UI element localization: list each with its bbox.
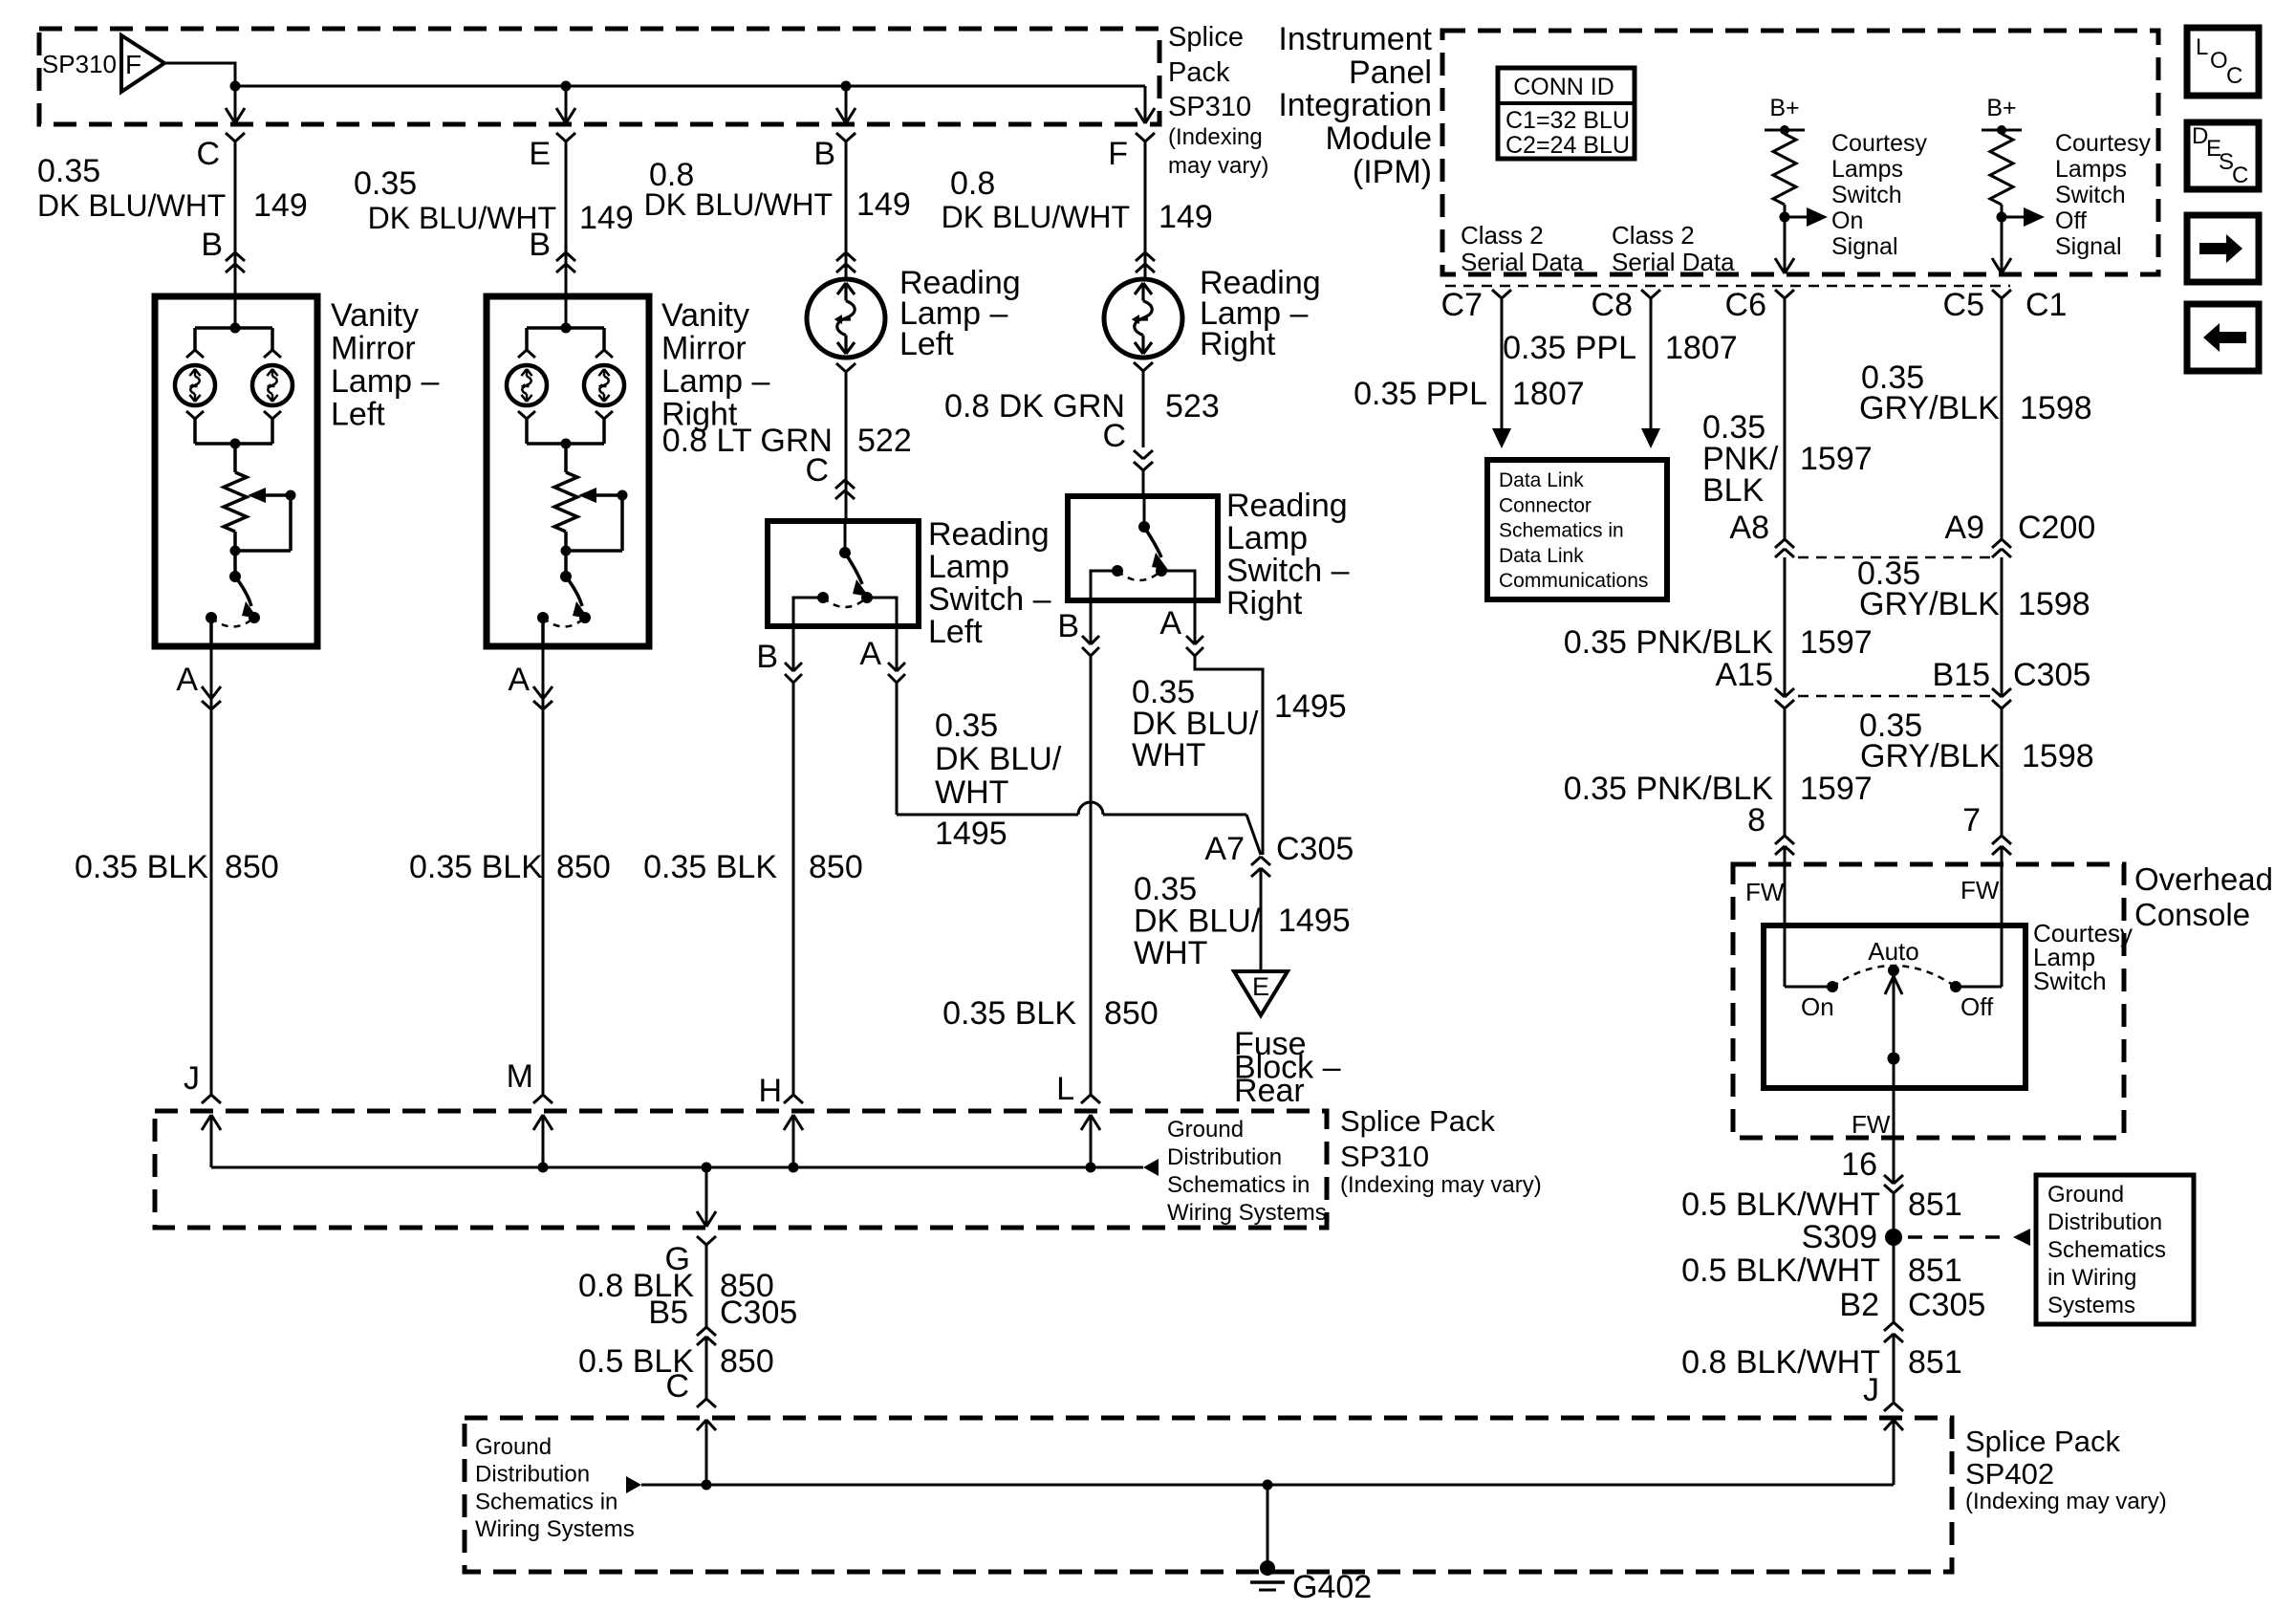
connector label C305 (B15) bbox=[2013, 657, 2090, 693]
circuit number 851 (1) bbox=[1908, 1186, 1962, 1223]
svg-text:CONN ID: CONN ID bbox=[1513, 74, 1614, 100]
switch left pivot bbox=[839, 521, 851, 558]
circuit number 149 (B) bbox=[856, 186, 911, 223]
wire label DK BLU/WHT (E) bbox=[368, 201, 556, 235]
svg-text:Switch –: Switch – bbox=[1226, 553, 1350, 589]
wire C7 to data link bbox=[1492, 298, 1511, 448]
circuit number 149 (F) bbox=[1159, 199, 1213, 235]
wire A7 to fuse block bbox=[1260, 868, 1263, 969]
svg-text:Signal: Signal bbox=[2055, 233, 2122, 260]
FW label (right) bbox=[1960, 876, 2000, 904]
circuit number 1495 (right) bbox=[1274, 688, 1347, 725]
svg-text:GRY/BLK: GRY/BLK bbox=[1859, 390, 2000, 426]
svg-text:SP310: SP310 bbox=[42, 50, 117, 78]
connector chevron mid (lamp right) bbox=[1136, 252, 1155, 272]
pin label A (vanity right) bbox=[508, 662, 530, 698]
svg-text:C305: C305 bbox=[1908, 1287, 1985, 1323]
svg-text:Communications: Communications bbox=[1499, 570, 1648, 592]
wire label 0.35 BLK (H) bbox=[643, 849, 777, 885]
svg-text:B2: B2 bbox=[1839, 1287, 1879, 1323]
svg-text:B: B bbox=[756, 639, 778, 675]
wire label 0.8 DK GRN bbox=[944, 388, 1125, 425]
connector chevron 16 bbox=[1884, 1175, 1903, 1193]
wire from SP310 triangle bbox=[164, 63, 235, 86]
svg-text:1807: 1807 bbox=[1512, 376, 1585, 412]
svg-text:Splice: Splice bbox=[1168, 22, 1244, 53]
wire courtesy off to border bbox=[1992, 217, 2011, 273]
svg-text:C8: C8 bbox=[1592, 287, 1633, 323]
connector chevron B (lamp left) bbox=[836, 133, 856, 142]
svg-text:0.8 BLK/WHT: 0.8 BLK/WHT bbox=[1681, 1344, 1880, 1381]
connector label C200 bbox=[2018, 510, 2095, 546]
switch right pivot bbox=[1138, 496, 1150, 533]
vanity mirror lamp right box bbox=[487, 296, 649, 646]
arrow into splice L bbox=[1081, 1115, 1100, 1130]
svg-text:Switch –: Switch – bbox=[928, 581, 1051, 618]
svg-text:Vanity: Vanity bbox=[331, 297, 419, 334]
connector chevron C bbox=[226, 133, 245, 142]
svg-text:C5: C5 bbox=[1943, 287, 1984, 323]
svg-text:Schematics: Schematics bbox=[2047, 1237, 2166, 1263]
pin label B (vanity left) bbox=[201, 227, 223, 263]
svg-text:C1: C1 bbox=[2025, 287, 2067, 323]
overhead console title bbox=[2134, 861, 2273, 932]
svg-text:Panel: Panel bbox=[1349, 54, 1432, 91]
svg-text:Mirror: Mirror bbox=[661, 331, 747, 367]
connector chevron B15 bbox=[1992, 688, 2011, 708]
svg-text:B: B bbox=[1057, 608, 1079, 644]
svg-text:Distribution: Distribution bbox=[2047, 1209, 2162, 1235]
instrument panel integration module box (dashed) bbox=[1442, 31, 2158, 274]
svg-text:Reading: Reading bbox=[1226, 488, 1348, 524]
pin label A (switch left) bbox=[859, 636, 881, 672]
connector chevron mid (lamp left) bbox=[836, 252, 856, 272]
wire label 0.35 BLK (vanity right) bbox=[409, 849, 543, 885]
svg-text:Serial Data: Serial Data bbox=[1461, 248, 1584, 276]
pin label C6 bbox=[1725, 287, 1766, 323]
connector chevron A9 bbox=[1992, 539, 2011, 557]
svg-text:Schematics in: Schematics in bbox=[1499, 520, 1624, 542]
svg-text:Console: Console bbox=[2134, 897, 2250, 932]
pin label A8 bbox=[1729, 510, 1769, 546]
wire label 0.35 DK BLU/WHT (fuse) bbox=[1134, 871, 1261, 971]
circuit number 1597 (C6) bbox=[1800, 441, 1873, 477]
svg-text:DK BLU/: DK BLU/ bbox=[935, 741, 1062, 777]
ground label G402 bbox=[1292, 1569, 1372, 1605]
svg-text:FW: FW bbox=[1960, 876, 2000, 904]
connector chevron B5 bbox=[697, 1327, 716, 1345]
svg-text:C7: C7 bbox=[1441, 287, 1483, 323]
wire label 0.35 DK BLU/WHT (1495 right) bbox=[1132, 674, 1259, 773]
courtesy lamp switch title bbox=[2033, 919, 2133, 995]
svg-text:Right: Right bbox=[1200, 326, 1276, 362]
circuit number 1807 (C8) bbox=[1665, 330, 1738, 366]
forward arrow box bbox=[2187, 215, 2259, 282]
signal arrow (off) bbox=[2002, 207, 2045, 227]
svg-text:A: A bbox=[508, 662, 530, 698]
wire switch to 16 bbox=[1893, 1088, 1895, 1184]
svg-text:C: C bbox=[196, 136, 220, 172]
circuit number 1807 (C7) bbox=[1512, 376, 1585, 412]
connector label C305 (B2) bbox=[1908, 1287, 1985, 1323]
svg-text:523: 523 bbox=[1165, 388, 1220, 425]
switch off wire bbox=[1950, 981, 2002, 992]
svg-text:7: 7 bbox=[1962, 802, 1981, 838]
svg-text:1495: 1495 bbox=[1274, 688, 1347, 725]
svg-text:C305: C305 bbox=[720, 1295, 797, 1331]
FW label (bottom) bbox=[1852, 1110, 1891, 1139]
pin label F bbox=[1108, 136, 1128, 172]
connector chevron J bbox=[202, 1095, 221, 1103]
svg-text:A: A bbox=[1159, 605, 1181, 642]
connector chevron E bbox=[556, 133, 575, 142]
svg-text:0.35 PNK/BLK: 0.35 PNK/BLK bbox=[1564, 771, 1774, 807]
svg-text:B: B bbox=[529, 227, 551, 263]
splice pack SP310 ground title bbox=[1340, 1104, 1542, 1198]
junction dot B bbox=[841, 81, 852, 92]
wire C5 to A9 bbox=[2001, 298, 2004, 539]
connector chevron B (vanity left) bbox=[226, 252, 245, 272]
svg-text:149: 149 bbox=[856, 186, 911, 223]
wire label 0.35 (C) bbox=[37, 153, 100, 189]
svg-text:B+: B+ bbox=[1769, 95, 1799, 121]
svg-text:0.35 PNK/BLK: 0.35 PNK/BLK bbox=[1564, 624, 1774, 661]
wire label 0.35 PPL (C7) bbox=[1354, 376, 1487, 412]
svg-text:Courtesy: Courtesy bbox=[2055, 130, 2152, 157]
wire label 0.35 BLK (vanity left) bbox=[75, 849, 208, 885]
arrow into SP402 (C) bbox=[697, 1420, 716, 1430]
wire H into bus bbox=[792, 1115, 795, 1167]
wire B2 to J bbox=[1893, 1334, 1895, 1403]
circuit number 523 bbox=[1165, 388, 1220, 425]
pin label A (vanity left) bbox=[176, 662, 198, 698]
wire F to reading lamp right bbox=[1144, 142, 1147, 279]
splice SP310 label bbox=[42, 50, 117, 78]
circuit number 850 (vanity left) bbox=[225, 849, 279, 885]
connector chevron C8 bbox=[1641, 290, 1660, 298]
svg-text:851: 851 bbox=[1908, 1186, 1962, 1223]
splice SP310 triangle F bbox=[121, 35, 164, 92]
B+ rail (off) bbox=[1982, 125, 2022, 135]
svg-text:0.35 PPL: 0.35 PPL bbox=[1354, 376, 1487, 412]
svg-text:F: F bbox=[125, 50, 141, 79]
wire 1495 from switch left bbox=[897, 683, 1261, 855]
svg-text:Left: Left bbox=[928, 614, 983, 650]
circuit number 1597 (2) bbox=[1800, 624, 1873, 661]
auto label bbox=[1868, 937, 1919, 966]
switch right contacts bbox=[1112, 565, 1167, 577]
svg-text:C200: C200 bbox=[2018, 510, 2095, 546]
svg-text:Reading: Reading bbox=[928, 516, 1050, 553]
svg-text:A7: A7 bbox=[1204, 831, 1245, 867]
wire J into SP402 bbox=[1893, 1420, 1895, 1485]
circuit number 851 (3) bbox=[1908, 1344, 1962, 1381]
circuit number 850 (L) bbox=[1104, 995, 1159, 1032]
svg-text:On: On bbox=[1801, 992, 1834, 1021]
junction dot (off) bbox=[1997, 212, 2007, 223]
wire label 0.35 DK BLU/WHT (1495 left) bbox=[935, 708, 1062, 811]
wire label DK BLU/WHT (F) bbox=[942, 200, 1130, 234]
wire A15 to 8 bbox=[1784, 708, 1787, 836]
connector line A15/B15 (thin dashed) bbox=[1798, 695, 1990, 698]
svg-text:E: E bbox=[529, 136, 551, 172]
wire C6 to A8 bbox=[1784, 298, 1787, 539]
switch right pin B wire bbox=[1091, 571, 1117, 600]
svg-text:1597: 1597 bbox=[1800, 624, 1873, 661]
svg-text:Systems: Systems bbox=[2047, 1293, 2135, 1318]
signal arrow (on) bbox=[1785, 207, 1828, 227]
wire label 0.35 GRY/BLK (3) bbox=[1859, 708, 2001, 774]
svg-text:A: A bbox=[176, 662, 198, 698]
connector chevron B2 bbox=[1884, 1322, 1903, 1342]
svg-text:Courtesy: Courtesy bbox=[1831, 130, 1928, 157]
reading lamp left title bbox=[899, 265, 1021, 362]
svg-text:851: 851 bbox=[1908, 1252, 1962, 1289]
back arrow box bbox=[2187, 304, 2259, 371]
splice dot S309 bbox=[1885, 1229, 1902, 1246]
svg-text:850: 850 bbox=[809, 849, 863, 885]
svg-text:1597: 1597 bbox=[1800, 771, 1873, 807]
svg-text:C305: C305 bbox=[1276, 831, 1354, 867]
arrow into splice H bbox=[784, 1115, 803, 1130]
svg-text:Pack: Pack bbox=[1168, 57, 1230, 88]
pin label M bbox=[507, 1058, 533, 1095]
svg-text:L: L bbox=[1056, 1071, 1074, 1107]
wire B to reading lamp left bbox=[845, 142, 848, 279]
connector chevron C6 bbox=[1775, 290, 1794, 298]
vanity mirror lamp left box bbox=[155, 296, 317, 646]
svg-text:WHT: WHT bbox=[1132, 737, 1205, 773]
svg-text:Class 2: Class 2 bbox=[1461, 221, 1544, 250]
junction dot H bus bbox=[789, 1163, 799, 1173]
connector line A8/A9 (thin dashed) bbox=[1798, 556, 1990, 559]
pin label J (SP402) bbox=[1863, 1372, 1879, 1408]
svg-text:Lamp –: Lamp – bbox=[331, 363, 439, 400]
svg-text:SP310: SP310 bbox=[1168, 92, 1251, 122]
pin label B (switch left) bbox=[756, 639, 778, 675]
svg-text:0.35: 0.35 bbox=[37, 153, 100, 189]
junction dot C bbox=[230, 81, 241, 92]
wire drop B bbox=[836, 86, 856, 123]
pin label B2 bbox=[1839, 1287, 1879, 1323]
bus wire SP310 bbox=[235, 85, 1145, 88]
connector chevron A (vanity left) bbox=[202, 686, 221, 709]
wire L into bus bbox=[1090, 1115, 1093, 1167]
svg-text:C6: C6 bbox=[1725, 287, 1766, 323]
svg-text:8: 8 bbox=[1747, 802, 1765, 838]
wire drop F bbox=[1136, 86, 1155, 123]
svg-text:in Wiring: in Wiring bbox=[2047, 1265, 2136, 1291]
splice SP402 bus bbox=[641, 1484, 1894, 1487]
svg-text:Switch: Switch bbox=[1831, 182, 1902, 208]
circuit number 522 bbox=[857, 423, 912, 459]
wire label 0.35 BLK (L) bbox=[942, 995, 1076, 1032]
svg-text:Rear: Rear bbox=[1234, 1073, 1305, 1109]
connector chevron G bbox=[697, 1236, 716, 1245]
svg-text:Off: Off bbox=[1960, 992, 1994, 1021]
pin label C (SP402) bbox=[665, 1368, 689, 1404]
svg-text:851: 851 bbox=[1908, 1344, 1962, 1381]
connector chevron A8 bbox=[1775, 539, 1794, 557]
courtesy lamp switch box bbox=[1764, 925, 2025, 1088]
wire 1495 from switch right bbox=[1195, 656, 1263, 855]
svg-text:Distribution: Distribution bbox=[475, 1462, 590, 1488]
wire lamp right to switch bbox=[1142, 371, 1145, 447]
svg-text:Wiring Systems: Wiring Systems bbox=[1167, 1200, 1327, 1226]
svg-text:149: 149 bbox=[253, 187, 308, 224]
svg-text:Ground: Ground bbox=[2047, 1182, 2124, 1208]
wire G drop bbox=[697, 1167, 716, 1227]
svg-text:WHT: WHT bbox=[935, 774, 1008, 811]
svg-text:B: B bbox=[201, 227, 223, 263]
pin label 16 bbox=[1841, 1146, 1877, 1183]
svg-text:G402: G402 bbox=[1292, 1569, 1372, 1605]
B+ rail (on) bbox=[1765, 125, 1805, 135]
splice label S309 bbox=[1802, 1219, 1877, 1255]
svg-text:0.35 BLK: 0.35 BLK bbox=[643, 849, 777, 885]
resistor courtesy off bbox=[1990, 130, 2013, 217]
junction dot L bus bbox=[1086, 1163, 1096, 1173]
wire drop E bbox=[556, 86, 575, 123]
wire label 0.8 (F) bbox=[950, 165, 995, 202]
fuse block triangle E bbox=[1234, 971, 1288, 1015]
FW label (left) bbox=[1745, 878, 1785, 906]
svg-text:Ground: Ground bbox=[475, 1434, 552, 1460]
svg-text:B15: B15 bbox=[1933, 657, 1991, 693]
circuit number 850 (H) bbox=[809, 849, 863, 885]
B+ label (off) bbox=[1986, 95, 2016, 121]
svg-text:850: 850 bbox=[1104, 995, 1159, 1032]
svg-text:Left: Left bbox=[899, 326, 954, 362]
svg-text:0.35 BLK: 0.35 BLK bbox=[409, 849, 543, 885]
pin label B (vanity right) bbox=[529, 227, 551, 263]
svg-text:Schematics in: Schematics in bbox=[1167, 1172, 1310, 1198]
overhead console box (dashed) bbox=[1733, 864, 2124, 1138]
pin label A7 bbox=[1204, 831, 1245, 867]
wire label 0.35 PPL (C8) bbox=[1503, 330, 1636, 366]
svg-text:GRY/BLK: GRY/BLK bbox=[1860, 738, 2001, 774]
connector chevron A (vanity right) bbox=[533, 686, 552, 709]
vanity mirror lamp right title bbox=[661, 297, 769, 433]
wire B switch left to H bbox=[792, 683, 795, 1095]
svg-text:M: M bbox=[507, 1058, 533, 1095]
splice pack SP402 title bbox=[1965, 1425, 2167, 1514]
connector chevron C5 bbox=[1992, 290, 2011, 298]
svg-text:0.35 BLK: 0.35 BLK bbox=[942, 995, 1076, 1032]
svg-text:(Indexing may vary): (Indexing may vary) bbox=[1340, 1172, 1542, 1198]
junction dot G402 bbox=[1263, 1480, 1273, 1491]
junction dot E bbox=[561, 81, 572, 92]
connector chevron C7 bbox=[1492, 290, 1511, 298]
wire courtesy on to border bbox=[1775, 217, 1794, 273]
wire G to B5 bbox=[705, 1245, 708, 1327]
wire A vanity left bbox=[210, 646, 213, 1095]
pin label H bbox=[758, 1073, 782, 1109]
circuit number 149 (C) bbox=[253, 187, 308, 224]
class 2 serial data label (C8) bbox=[1612, 221, 1735, 276]
reading lamp switch right title bbox=[1226, 488, 1350, 621]
wire A9 to B15 bbox=[2001, 557, 2004, 697]
wire label 0.5 BLK/WHT (1) bbox=[1681, 1186, 1880, 1223]
wire E to vanity right bbox=[565, 142, 568, 328]
svg-text:1807: 1807 bbox=[1665, 330, 1738, 366]
wire label 0.35 PNK/BLK (2) bbox=[1564, 624, 1774, 661]
pin label A9 bbox=[1944, 510, 1984, 546]
wire B15 to 7 bbox=[2001, 708, 2004, 836]
connector chevron A (switch right) bbox=[1186, 600, 1203, 656]
wire 8 into switch bbox=[1784, 846, 1787, 987]
connector chevron A (switch left) bbox=[888, 626, 905, 683]
pin label C7 bbox=[1441, 287, 1483, 323]
junction dot M bus bbox=[538, 1163, 549, 1173]
svg-text:C: C bbox=[2232, 163, 2248, 188]
svg-text:BLK: BLK bbox=[1702, 472, 1765, 509]
svg-text:0.35: 0.35 bbox=[935, 708, 998, 744]
circuit number 851 (2) bbox=[1908, 1252, 1962, 1289]
svg-text:Data Link: Data Link bbox=[1499, 469, 1584, 491]
pin label C5 bbox=[1943, 287, 1984, 323]
svg-text:(Indexing may vary): (Indexing may vary) bbox=[1965, 1489, 2167, 1514]
junction dot G bus bbox=[702, 1163, 712, 1173]
svg-text:1598: 1598 bbox=[2020, 390, 2092, 426]
svg-text:C2=24 BLU: C2=24 BLU bbox=[1505, 132, 1630, 159]
connector chevron F bbox=[1136, 133, 1155, 142]
pin label B (lamp left) bbox=[813, 136, 835, 172]
wire label 0.35 (E) bbox=[354, 165, 417, 202]
svg-text:0.35: 0.35 bbox=[1134, 871, 1197, 907]
svg-text:C305: C305 bbox=[2013, 657, 2090, 693]
wire B5 to C bbox=[705, 1337, 708, 1399]
svg-text:E: E bbox=[1252, 972, 1269, 1001]
svg-text:149: 149 bbox=[1159, 199, 1213, 235]
svg-text:850: 850 bbox=[556, 849, 611, 885]
connector chevron J (SP402) bbox=[1884, 1403, 1903, 1411]
svg-text:Schematics in: Schematics in bbox=[475, 1489, 617, 1514]
switch on wire bbox=[1785, 981, 1838, 992]
wire A8 to A15 bbox=[1784, 557, 1787, 697]
svg-text:Splice Pack: Splice Pack bbox=[1340, 1104, 1495, 1138]
svg-text:C1=32 BLU: C1=32 BLU bbox=[1505, 107, 1630, 134]
svg-text:FW: FW bbox=[1745, 878, 1785, 906]
wire C into SP402 bbox=[705, 1420, 708, 1485]
fuse block label bbox=[1234, 1026, 1341, 1109]
svg-text:Left: Left bbox=[331, 397, 385, 433]
wire label 0.8 BLK bbox=[578, 1268, 694, 1304]
wire label 0.35 PNK/BLK (C6) bbox=[1702, 409, 1779, 509]
connector label C305 (A7) bbox=[1276, 831, 1354, 867]
circuit number 1597 (3) bbox=[1800, 771, 1873, 807]
wire label 0.35 PNK/BLK (3) bbox=[1564, 771, 1774, 807]
pin label A15 bbox=[1716, 657, 1774, 693]
switch left arm bbox=[845, 553, 869, 597]
wire label 0.8 LT GRN bbox=[662, 423, 833, 459]
splice bus arrow to ground dist bbox=[1143, 1159, 1159, 1176]
pin label B15 bbox=[1933, 657, 1991, 693]
svg-text:WHT: WHT bbox=[1134, 935, 1207, 971]
svg-text:Off: Off bbox=[2055, 207, 2087, 234]
pin label C bbox=[196, 136, 220, 172]
reading lamp left bulb bbox=[807, 279, 885, 358]
svg-text:J: J bbox=[184, 1060, 200, 1097]
connector chevron C (switch left) bbox=[835, 480, 855, 499]
pin label B (switch right) bbox=[1057, 608, 1079, 644]
dashed ref line S309 bbox=[1908, 1235, 2011, 1239]
svg-text:Lamps: Lamps bbox=[2055, 156, 2127, 183]
svg-text:F: F bbox=[1108, 136, 1128, 172]
connector chevron B (switch left) bbox=[785, 626, 802, 683]
auto contact bbox=[1888, 965, 1899, 976]
svg-text:A9: A9 bbox=[1944, 510, 1984, 546]
